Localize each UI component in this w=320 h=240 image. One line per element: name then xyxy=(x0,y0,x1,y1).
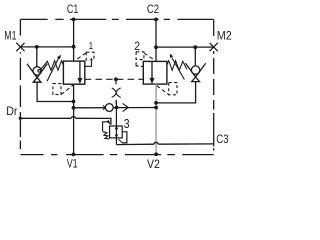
wire C1 port to valve 1 xyxy=(73,19,75,61)
plug X at port M2 xyxy=(210,43,218,51)
junction dot check 2 bottom xyxy=(154,101,158,105)
valve 1 internal pilot leader xyxy=(61,85,73,95)
svg-text:3: 3 xyxy=(124,117,130,131)
junction dot Dr xyxy=(19,117,22,120)
valve 1 adjustment arrow xyxy=(47,55,61,82)
pilot valve 3 spring xyxy=(103,132,109,139)
valve 2 internal flow arrow xyxy=(150,61,155,84)
junction dot check 2 top xyxy=(193,45,197,49)
shuttle seat chevron xyxy=(123,103,129,111)
valve 2 spring xyxy=(167,61,187,70)
enclosure top boundary xyxy=(20,18,213,20)
pilot valve 3 flow line xyxy=(115,102,117,145)
svg-text:C3: C3 xyxy=(216,132,228,146)
port label C1 xyxy=(67,2,79,16)
port label C2 xyxy=(147,2,159,16)
valve 1 spring xyxy=(38,61,63,72)
wire C2 port to valve 2 xyxy=(155,19,157,61)
pilot valve 3 up arrow xyxy=(115,126,119,130)
junction dot A check 1 bottom xyxy=(72,100,76,104)
svg-text:2: 2 xyxy=(134,41,140,53)
port label M2 xyxy=(217,30,232,42)
item box 2 xyxy=(136,52,144,60)
junction dot C1 pilot xyxy=(72,45,76,49)
pilot valve 3 body xyxy=(110,126,123,138)
wire valve 1 to V1 port xyxy=(73,84,75,154)
port label M1 xyxy=(4,30,16,42)
check valve CV2 xyxy=(156,47,206,103)
cross pilot dashed line xyxy=(85,78,144,80)
svg-text:C1: C1 xyxy=(67,2,79,16)
drain line to C3 port xyxy=(116,142,213,144)
junction dot cross pilot xyxy=(114,77,118,81)
item box 1 leader xyxy=(75,53,86,61)
item label 3 xyxy=(124,117,130,131)
valve 2 internal pilot leader xyxy=(157,86,169,95)
pilot branch dashed down xyxy=(115,79,117,103)
port label V1 xyxy=(67,156,78,170)
enclosure right boundary xyxy=(213,19,215,150)
valve 1 internal pilot box xyxy=(53,84,61,95)
item box 1 xyxy=(86,52,94,60)
junction dot V1 xyxy=(72,153,76,157)
enclosure bottom boundary xyxy=(20,154,213,156)
svg-text:V1: V1 xyxy=(67,156,78,170)
port label Dr xyxy=(6,104,17,118)
drain line Dr to pilot valve 3 xyxy=(20,116,111,124)
junction dot C2 xyxy=(154,18,158,22)
item label 2 xyxy=(134,41,140,53)
pilot valve 3 pilot arrow xyxy=(106,120,111,125)
wire M1 to C1 line xyxy=(20,46,73,48)
shuttle ball xyxy=(105,104,113,112)
wire valve 2 to V2 port grey xyxy=(155,84,157,154)
junction dot shuttle center xyxy=(115,106,119,110)
item label 1 xyxy=(89,40,94,52)
port label C3 xyxy=(216,132,228,146)
counterbalance valve 1 body xyxy=(63,61,84,84)
junction dot V2 xyxy=(154,152,158,156)
orifice X symbol xyxy=(112,88,121,98)
valve 2 internal pilot box xyxy=(169,83,177,95)
junction dot check 1 top xyxy=(35,45,39,49)
wire C2 line to M2 xyxy=(156,46,214,48)
valve 1 pilot loop to box 1 xyxy=(85,58,92,66)
check valve CV1 xyxy=(27,47,74,102)
valve 1 internal flow arrow xyxy=(77,61,82,84)
counterbalance valve 2 body xyxy=(143,61,167,84)
pilot valve 3 bypass loop xyxy=(122,132,127,143)
junction dot C2 pilot xyxy=(154,45,158,49)
svg-text:M1: M1 xyxy=(4,30,16,42)
svg-text:M2: M2 xyxy=(217,30,232,42)
svg-text:1: 1 xyxy=(89,40,94,52)
item box 2 leader xyxy=(144,53,155,61)
svg-text:C2: C2 xyxy=(147,2,159,16)
pilot valve 3 leader diagonal xyxy=(118,139,122,143)
shuttle seat left xyxy=(103,105,105,109)
shuttle line V1 to V2 xyxy=(74,107,157,109)
svg-text:Dr: Dr xyxy=(6,104,17,118)
junction dot C1 xyxy=(72,18,76,22)
enclosure left boundary xyxy=(19,19,21,149)
pilot valve 3 down arrow xyxy=(115,135,119,139)
valve 2 adjustment arrow xyxy=(170,54,185,80)
pilot valve 3 vent line xyxy=(103,122,109,132)
junction dot B shuttle left xyxy=(72,106,76,110)
svg-text:V2: V2 xyxy=(147,157,160,171)
valve 2 pilot loop to box 2 xyxy=(136,59,143,67)
port label V2 xyxy=(147,157,160,171)
plug X at port M1 xyxy=(16,43,24,51)
junction dot shuttle right xyxy=(154,106,158,110)
